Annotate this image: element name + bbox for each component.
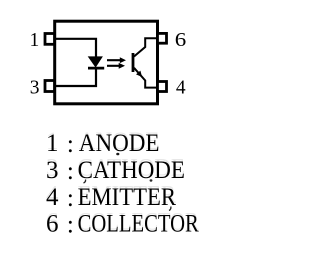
svg-text:4: 4 xyxy=(176,77,186,98)
svg-text:EMITTER: EMITTER xyxy=(78,184,177,211)
svg-text:1: 1 xyxy=(30,30,40,51)
svg-text::: : xyxy=(67,158,74,185)
svg-text:6: 6 xyxy=(46,211,59,238)
svg-text:ANODE: ANODE xyxy=(79,130,160,157)
svg-text:3: 3 xyxy=(46,157,59,184)
svg-text:3: 3 xyxy=(30,77,40,98)
svg-text:1: 1 xyxy=(46,130,59,157)
svg-text::: : xyxy=(67,131,74,158)
svg-text:COLLECTOR: COLLECTOR xyxy=(78,211,199,238)
svg-text::: : xyxy=(67,212,74,239)
svg-text:4: 4 xyxy=(46,184,59,211)
svg-text:CATHODE: CATHODE xyxy=(78,157,185,184)
svg-text::: : xyxy=(67,185,74,212)
svg-text:6: 6 xyxy=(175,30,187,51)
